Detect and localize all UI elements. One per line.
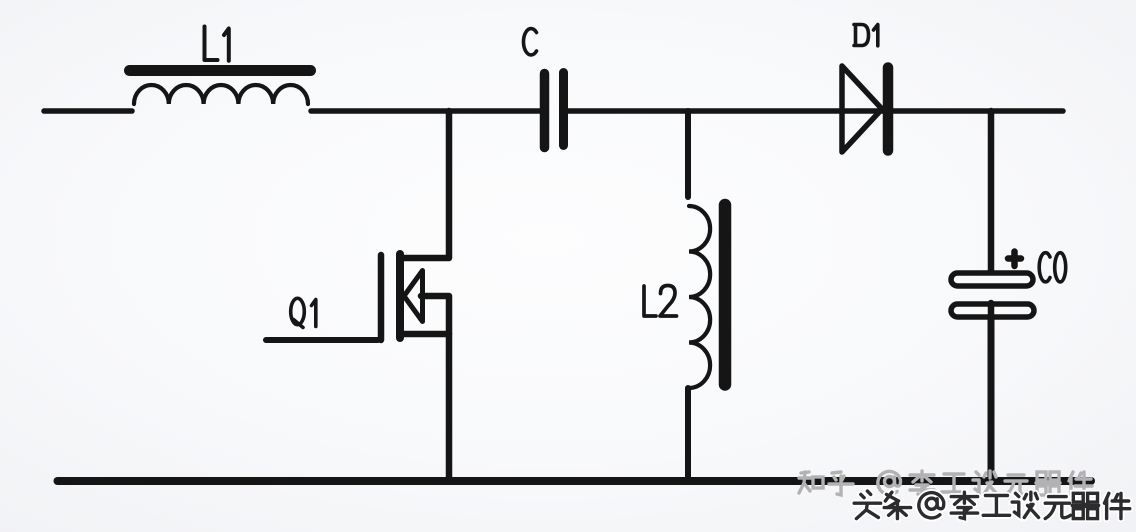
- wire C to D1: [568, 108, 886, 114]
- inductor L2 core bar: [719, 205, 732, 385]
- transistor Q1 body bar: [396, 254, 404, 338]
- inductor L1 core bar: [130, 65, 311, 76]
- label L2: [644, 286, 656, 316]
- watermark line 1: 知乎 @李工谈元器件: [799, 471, 1092, 495]
- label Q1: [291, 298, 305, 324]
- label C0: [1039, 253, 1050, 282]
- transistor Q1 gate bar: [378, 255, 385, 340]
- capacitor C left plate: [540, 74, 550, 148]
- label C: [523, 29, 536, 55]
- wire L1 to C: [311, 108, 541, 114]
- transistor Q1 body stub to source: [421, 296, 449, 334]
- wire top-left input segment: [44, 108, 132, 114]
- capacitor C right plate: [559, 73, 568, 146]
- wire D1 to output: [891, 108, 1063, 114]
- inductor L2 winding: [689, 206, 710, 388]
- capacitor C0 bottom plate: [951, 304, 1034, 317]
- wire Q1 drain drop: [404, 111, 449, 258]
- transistor Q1 source stub and wire down: [404, 334, 449, 481]
- wire C0 top drop: [988, 111, 995, 272]
- wire L2 bottom drop: [685, 388, 691, 481]
- transistor Q1 gate wire: [266, 337, 378, 343]
- diode D1 triangle: [842, 66, 882, 152]
- capacitor C0 plate divider wire: [988, 303, 995, 318]
- wire C0 bottom drop: [988, 318, 995, 481]
- capacitor C0 top plate: [951, 273, 1033, 286]
- label D1: [854, 25, 869, 46]
- inductor L1 winding: [134, 85, 308, 104]
- watermark line 2: 头条 @李工谈元器件 (white halo): [854, 491, 1130, 518]
- wire bottom return rail: [58, 477, 1092, 485]
- wire L2 top drop: [685, 111, 691, 197]
- capacitor C0 polarity plus: [1008, 252, 1021, 267]
- diode D1 cathode bar: [883, 68, 894, 151]
- label L1: [205, 27, 218, 61]
- transistor Q1 body diode arrow: [404, 271, 423, 322]
